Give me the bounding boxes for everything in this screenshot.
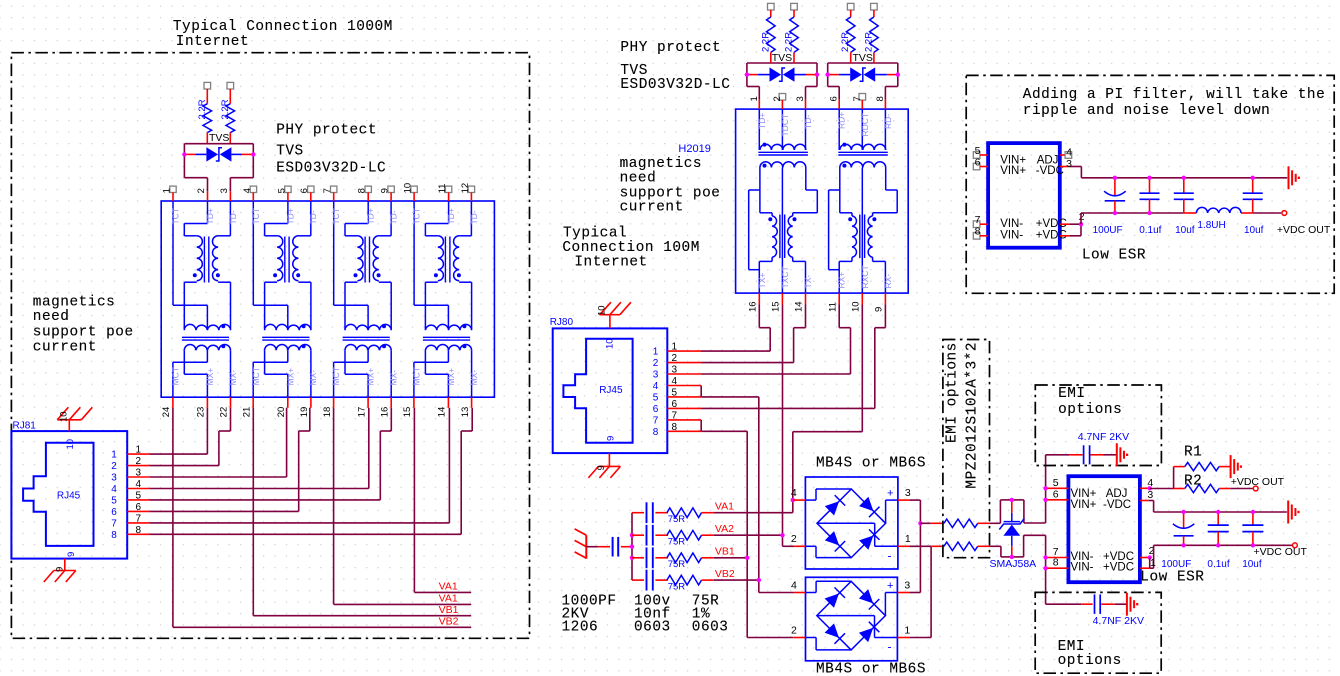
svg-text:8: 8: [111, 530, 117, 541]
capacitor 10uf (PI): [1243, 178, 1263, 213]
svg-text:18: 18: [322, 407, 333, 418]
ladder riser wire: [631, 513, 633, 580]
bridge diode bottom-right: [859, 622, 879, 642]
label RJ81: [13, 421, 37, 432]
svg-text:9: 9: [874, 307, 885, 312]
svg-text:6: 6: [829, 96, 840, 101]
svg-text:TD-: TD-: [469, 210, 479, 224]
H2019 pin 8 (top): [875, 96, 886, 109]
T1 channel 1 choke winding lower: [184, 344, 230, 350]
T1 channel 4 pin names MCT MX+ MX-: [412, 367, 479, 385]
RJ80 pin 5 stub: [653, 387, 701, 403]
resistor 75R row 3: [667, 553, 702, 570]
svg-text:19: 19: [299, 407, 310, 418]
ground EMI cap (top): [1117, 443, 1127, 466]
svg-text:4: 4: [791, 487, 797, 499]
svg-text:PHY protect: PHY protect: [276, 122, 377, 138]
label PHY protect (mid): [620, 40, 721, 56]
svg-text:+VDC: +VDC: [1103, 562, 1134, 574]
svg-text:3: 3: [653, 370, 659, 381]
label EMI options (top): [1058, 386, 1122, 418]
wire T1-19 to RJ81-6: [150, 408, 310, 512]
svg-text:10: 10: [59, 411, 70, 422]
wire H2019-14 to RJ80-2: [701, 305, 806, 363]
junction dots ladder riser: [630, 533, 634, 560]
TVS diode: [747, 67, 817, 81]
wire H2019-11 to RJ80-3: [701, 305, 851, 375]
T1 pin 12 (top): [460, 183, 475, 201]
PI filter frame: [966, 75, 1334, 293]
wire T1-24 to VB2: [173, 408, 471, 628]
T1 pin 19 (bottom): [299, 397, 311, 417]
T1 channel 3 MX+ step wires: [345, 350, 368, 397]
svg-text:10: 10: [605, 338, 616, 349]
RJ81 pin 6 stub: [111, 502, 150, 518]
label TVS (mid diode b): [853, 52, 873, 64]
T1 channel 1 pin names MCT MX+ MX-: [171, 367, 238, 385]
junction dots 100UF: [1181, 510, 1185, 548]
svg-text:2: 2: [196, 188, 207, 193]
junction dot 0.1uf top (PI): [1147, 176, 1151, 180]
svg-text:Internet: Internet: [176, 34, 249, 50]
svg-text:6: 6: [136, 502, 142, 513]
T1 channel 1 winding to choke links: [184, 282, 230, 329]
RJ80 pin 7 stub: [653, 410, 701, 426]
row cap C4: [632, 570, 668, 591]
svg-text:MX-: MX-: [308, 370, 318, 386]
junction dots SMAJ: [1010, 498, 1014, 559]
label H2019: [678, 143, 710, 155]
U1 pin 2 stub: [1060, 211, 1085, 224]
svg-text:6: 6: [653, 404, 659, 415]
svg-text:16: 16: [379, 407, 390, 418]
T1 pin 4 (top): [242, 186, 257, 201]
svg-text:TD-: TD-: [389, 210, 399, 224]
resistor R 2.2R (left a): [197, 82, 212, 143]
svg-text:TD+: TD+: [366, 208, 376, 224]
svg-text:10uf: 10uf: [1175, 225, 1195, 236]
T1 channel 2 TCT wire: [253, 201, 287, 329]
svg-text:TD-: TD-: [228, 210, 238, 224]
T1 channel 2 core: [285, 237, 289, 283]
resistor 75R row 4: [667, 575, 702, 592]
bridge pin numbers: [791, 579, 910, 636]
svg-text:+: +: [887, 488, 893, 500]
junction dots TVS: [745, 72, 820, 76]
U1 pin 7: [973, 214, 988, 228]
RJ81 pin 2 stub: [111, 456, 150, 472]
U2 pin 2 stub: [1140, 545, 1155, 560]
capacitor 0.1uf (lower): [1208, 512, 1229, 545]
T1 channel 3 choke core: [343, 337, 390, 340]
svg-text:1: 1: [905, 533, 911, 545]
svg-text:2: 2: [653, 358, 659, 369]
svg-text:1: 1: [111, 450, 117, 461]
T1 channel 2 secondary winding: [293, 236, 300, 281]
H2019 TD top leads: [759, 109, 805, 150]
RJ81 pin 8 stub: [111, 525, 150, 541]
ground R1: [1231, 455, 1241, 478]
net label VA1 (mid): [702, 501, 793, 513]
svg-text:1: 1: [136, 445, 142, 456]
regulator U1 box: [988, 143, 1060, 248]
wire T1-13 to RJ81-8: [150, 408, 472, 535]
H2019 TD choke winding lower: [760, 162, 806, 168]
svg-text:Adding a PI filter, will take: Adding a PI filter, will take the: [1023, 87, 1325, 103]
T1 channel 1 MX+ step wires: [184, 350, 207, 397]
svg-text:4: 4: [136, 479, 142, 490]
wire T1-21 to VB1: [253, 408, 471, 616]
svg-text:7: 7: [975, 214, 981, 226]
label SMAJ58A: [990, 558, 1037, 570]
svg-text:TDCT: TDCT: [780, 114, 790, 137]
svg-text:7: 7: [852, 96, 863, 101]
RJ81 pin 4 stub: [111, 479, 150, 495]
U2 pin 6: [1043, 488, 1068, 502]
capacitor 10uf (lower): [1242, 512, 1263, 545]
svg-text:TD-: TD-: [308, 210, 318, 224]
U1 text VIN- +VDC: [1000, 218, 1067, 230]
TVS loop wires at pins 839/885: [828, 63, 898, 99]
title Typical Connection 100M Internet: [562, 226, 700, 271]
T1 channel 1 TD+ lead: [184, 201, 207, 236]
T1 channel 2 primary winding: [273, 236, 283, 281]
svg-text:Low ESR: Low ESR: [1082, 248, 1146, 264]
svg-text:1: 1: [162, 188, 173, 193]
svg-text:options: options: [1058, 653, 1122, 669]
T1 pin 11 (top): [437, 184, 452, 201]
U1 pin 5: [973, 145, 988, 159]
U1 pin 4 stub: [1060, 147, 1072, 159]
U2 pin 4 stub: [1140, 477, 1154, 491]
wire -VDC rail (lower): [1154, 511, 1287, 513]
T1 channel 4 MX- wire: [471, 350, 473, 397]
wire +VDC rail (PI): [1081, 212, 1281, 214]
transformer H2019 box: [736, 109, 909, 293]
label Low ESR (PI): [1082, 248, 1146, 264]
RJ80 pin 4 stub: [653, 376, 701, 392]
label RJ80: [550, 317, 574, 328]
H2019 pin 11 (bottom): [827, 293, 839, 312]
bridge rectifier B2 MB4S: [806, 577, 898, 661]
svg-text:2.2R: 2.2R: [197, 99, 208, 119]
T1 channel 4 TD+ lead: [425, 201, 448, 236]
svg-text:8: 8: [875, 96, 886, 101]
svg-text:2: 2: [791, 624, 797, 636]
svg-text:9: 9: [606, 436, 617, 441]
svg-text:TXCT: TXCT: [780, 266, 790, 288]
svg-text:TVS: TVS: [853, 52, 873, 64]
svg-text:4: 4: [1147, 477, 1153, 489]
svg-text:TVS: TVS: [209, 132, 229, 144]
H2019 RX transformer left winding: [848, 216, 857, 257]
wire T1-22 to RJ81-2: [150, 408, 231, 466]
junction dots TVS left: [182, 152, 255, 156]
svg-text:8: 8: [653, 427, 659, 438]
U1 text VIN+ ADJ: [1000, 155, 1058, 167]
svg-text:13: 13: [460, 407, 471, 418]
label RJ45 (RJ81): [57, 490, 81, 501]
svg-text:4: 4: [111, 484, 117, 495]
svg-text:-VDC: -VDC: [1103, 499, 1131, 511]
T1 channel 3 MX- wire: [390, 350, 392, 397]
label 4.7NF 2KV (bottom): [1093, 615, 1144, 627]
svg-text:22: 22: [219, 407, 230, 418]
H2019 pin 14 (bottom): [794, 293, 806, 312]
svg-text:PHY protect: PHY protect: [620, 40, 721, 56]
row cap C3: [632, 547, 668, 568]
svg-text:6: 6: [111, 507, 117, 518]
wire H2019-10 to VA1 riser and bridge B1 pin4: [793, 305, 863, 513]
wire bridge outputs - join: [897, 546, 931, 637]
capacitor 10uf (PI): [1174, 178, 1194, 213]
svg-text:3: 3: [219, 188, 230, 193]
net label VA2 (mid): [702, 523, 783, 535]
svg-text:EMI: EMI: [1058, 386, 1086, 402]
resistor R2: [1174, 484, 1253, 492]
svg-text:1: 1: [1150, 557, 1156, 569]
U2 text VIN- +VDC (2): [1071, 562, 1135, 574]
svg-text:TD+: TD+: [285, 208, 295, 224]
svg-text:2.2R: 2.2R: [840, 32, 851, 52]
label 4.7NF 2KV (top): [1078, 431, 1129, 443]
T1 channel 2 MCT step wires: [253, 350, 288, 397]
T1 pin 14 (bottom): [437, 397, 449, 417]
TVS diode D1 loop wires: [184, 144, 253, 192]
capacitor 4.7NF 2KV (top): [1046, 445, 1117, 464]
H2019 pin 15 (bottom): [771, 293, 783, 312]
svg-text:-VDC: -VDC: [1036, 165, 1064, 177]
svg-text:10uf: 10uf: [1242, 559, 1262, 570]
T1 channel 3 choke winding upper: [345, 324, 391, 330]
RJ81 pin 1 stub: [111, 445, 150, 461]
T1 pin 8 (top): [357, 186, 372, 201]
svg-text:VIN+: VIN+: [1071, 499, 1097, 511]
svg-text:+VDC OUT: +VDC OUT: [1277, 224, 1331, 236]
U1 pin 3 stub: [1060, 158, 1082, 178]
RJ80 pin 10 stub and ground: [597, 302, 631, 349]
svg-text:4: 4: [672, 376, 678, 387]
H2019 TXCT wire: [781, 168, 783, 294]
svg-text:2: 2: [772, 96, 783, 101]
svg-text:9: 9: [380, 188, 391, 193]
bridge pin 4 wire: [805, 489, 851, 500]
svg-text:VA1: VA1: [715, 501, 734, 513]
RJ80 pin 1 stub: [653, 342, 701, 358]
T1 pin 2 (top): [196, 188, 208, 201]
svg-text:VA1: VA1: [439, 593, 458, 605]
U2 pin 3 stub: [1140, 489, 1154, 512]
T1 pin 20 (bottom): [276, 397, 288, 417]
T1 channel 2 pin names MCT MX+ MX-: [251, 367, 318, 385]
H2019 pin 10 (bottom): [850, 293, 862, 312]
bridge diamond: [817, 489, 886, 558]
svg-text:1206: 1206: [562, 620, 599, 636]
label R1: [1184, 445, 1202, 461]
RJ80 pin 3 stub: [653, 365, 701, 381]
resistor 75R row 2: [667, 530, 702, 547]
svg-text:RX+: RX+: [837, 272, 847, 289]
svg-text:MCT: MCT: [251, 367, 261, 385]
H2019 TX transformer left winding: [768, 216, 777, 257]
svg-text:2.2R: 2.2R: [220, 99, 231, 119]
connector RJ80 box: [553, 328, 668, 453]
RJ80 pin 9 stub and ground: [588, 436, 620, 478]
svg-text:-: -: [888, 640, 892, 654]
T1 channel 3 pin names MCT MX+ MX-: [331, 367, 398, 385]
svg-text:2: 2: [136, 456, 142, 467]
label magnetics need support poe current (mid): [620, 156, 721, 216]
label MB4S or MB6S (top): [816, 456, 926, 472]
svg-text:ESD03V32D-LC: ESD03V32D-LC: [276, 160, 386, 176]
T1 channel 3 winding to choke links: [345, 282, 391, 329]
svg-text:11: 11: [437, 184, 448, 194]
svg-text:Low ESR: Low ESR: [1140, 570, 1204, 586]
svg-text:1: 1: [653, 347, 659, 358]
svg-text:RJ80: RJ80: [550, 317, 574, 328]
capacitor 4.7NF 2KV (bottom): [1046, 594, 1127, 614]
svg-text:6: 6: [299, 188, 310, 193]
svg-text:7: 7: [322, 188, 333, 193]
label EMI options (rotated): [944, 342, 960, 443]
svg-text:21: 21: [241, 407, 252, 418]
svg-text:TD+: TD+: [446, 208, 456, 224]
bridge B1 pin4 stub: [793, 499, 806, 501]
svg-text:75R: 75R: [668, 581, 686, 592]
svg-text:4: 4: [791, 579, 797, 591]
svg-text:2: 2: [672, 353, 678, 364]
svg-text:RX-: RX-: [883, 274, 893, 289]
table 1000PF 100v 75R: [562, 594, 720, 610]
label RJ45 (RJ80): [599, 385, 623, 396]
junction dots 10uf: [1251, 510, 1255, 548]
junction dot VB2: [757, 578, 761, 582]
svg-text:9: 9: [596, 465, 607, 470]
connector RJ81 box: [11, 431, 127, 558]
label TVS (mid diode a): [772, 52, 792, 64]
svg-text:75R: 75R: [668, 514, 686, 525]
T1 channel 1 choke winding upper: [184, 324, 230, 330]
T1 channel 1 choke core: [182, 337, 229, 340]
svg-text:TX+: TX+: [757, 273, 767, 289]
resistor 2.2R: [784, 3, 799, 63]
svg-text:7: 7: [136, 513, 142, 524]
junction dots 0.1uf: [1216, 510, 1220, 548]
capacitor 100UF (lower): [1173, 512, 1194, 545]
RJ80 pin 2 stub: [653, 353, 701, 369]
row cap C1: [632, 502, 668, 523]
svg-text:R1: R1: [1184, 445, 1202, 461]
svg-text:MX-: MX-: [389, 370, 399, 386]
T1 channel 4 winding to choke links: [425, 282, 471, 329]
junction dot 100UF top (PI): [1113, 176, 1117, 180]
svg-text:4.7NF 2KV: 4.7NF 2KV: [1078, 431, 1129, 443]
U1 pin 1 stub: [1060, 213, 1083, 236]
H2019 RXCT wire: [861, 168, 863, 294]
label ESD03V32D-LC (mid): [620, 77, 730, 93]
T1 channel 1 MCT step wires: [173, 350, 208, 397]
row cap C2: [632, 525, 668, 546]
bridge diode top-left: [825, 587, 845, 607]
svg-text:3: 3: [136, 468, 142, 479]
wire T1-16 to RJ81-5: [150, 408, 391, 500]
T1 channel 4 choke winding upper: [425, 324, 471, 330]
T1 channel 4 MX+ step wires: [425, 350, 448, 397]
T1 channel 4 primary winding: [434, 236, 444, 281]
junction dot 10uf top (PI): [1182, 176, 1186, 180]
T1 channel 3 TD- lead: [379, 201, 391, 236]
T1 channel 4 secondary winding: [454, 236, 461, 281]
svg-text:TX-: TX-: [803, 275, 813, 289]
wire -VDC rail (PI): [1081, 177, 1287, 179]
svg-text:RD-: RD-: [883, 114, 893, 129]
svg-text:8: 8: [672, 422, 678, 433]
inductor 1.8UH: [1196, 207, 1241, 230]
T1 channel 3 core: [365, 237, 369, 283]
svg-text:0.1uf: 0.1uf: [1139, 225, 1161, 236]
label TVS (left): [276, 143, 304, 159]
svg-text:RJ81: RJ81: [13, 421, 37, 432]
svg-text:1: 1: [749, 96, 760, 101]
RJ80 pin 6 stub: [653, 399, 701, 415]
svg-text:VIN-: VIN-: [1071, 562, 1094, 574]
ground EMI cap (bottom): [1127, 593, 1137, 616]
label magnetics need support poe current (left): [33, 295, 134, 356]
svg-text:4.7NF 2KV: 4.7NF 2KV: [1093, 615, 1144, 627]
T1 pin 5 (top): [276, 186, 291, 201]
H2019 TD choke core: [758, 152, 808, 155]
T1 pin 15 (bottom): [402, 397, 414, 417]
bridge pin 1 wire: [817, 616, 898, 638]
label EMI options (bottom): [1058, 639, 1122, 669]
T1 channel 2 MX+ step wires: [265, 350, 288, 397]
svg-text:4: 4: [653, 381, 659, 392]
section frame 1000M: [11, 53, 529, 639]
svg-text:VIN-: VIN-: [1000, 218, 1023, 230]
capacitor 100UF (PI): [1104, 178, 1126, 213]
resistor 2.2R: [840, 3, 855, 63]
H2019 pin 2 (top): [772, 94, 786, 110]
svg-text:MB4S or MB6S: MB4S or MB6S: [816, 456, 926, 472]
svg-text:5: 5: [136, 490, 142, 501]
H2019 pin 3 (top): [795, 96, 806, 109]
label TVS (left diode): [209, 132, 229, 144]
svg-text:0603: 0603: [692, 620, 729, 636]
bridge diode bottom-left: [825, 531, 845, 551]
H2019 TX- bypass wires: [793, 168, 818, 294]
T1 channel 4 TD- lead: [459, 201, 471, 236]
T1 channel 1 primary winding: [193, 236, 203, 281]
T1 channel 4 pin names TCT TD+ TD-: [412, 208, 479, 225]
U2 VIN- trunk wire: [1045, 535, 1047, 604]
bridge pin 1 wire: [817, 523, 898, 546]
svg-text:VA1: VA1: [439, 581, 458, 593]
svg-text:24: 24: [161, 407, 172, 418]
T1 channel 1 pin names TCT TD+ TD-: [171, 208, 238, 225]
resistor R 2.2R (left b): [220, 82, 235, 143]
net label VB1 (mid): [702, 546, 748, 558]
bridge B1 pin2 stub: [794, 545, 805, 547]
svg-text:RJ45: RJ45: [599, 385, 623, 396]
label PHY protect (left): [276, 122, 377, 138]
H2019 RX- bypass wires: [873, 168, 898, 294]
U2 text VIN+ ADJ: [1071, 488, 1128, 500]
svg-text:+VDC OUT: +VDC OUT: [1254, 546, 1308, 558]
wire + to ferrite FB1: [920, 522, 944, 524]
RJ80 jack outline: [563, 339, 632, 443]
diode SMAJ58A: [999, 500, 1024, 557]
T1 channel 3 TCT wire: [334, 201, 368, 329]
